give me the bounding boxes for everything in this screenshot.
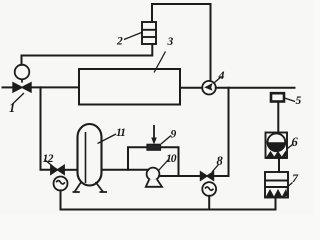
svg-text:1: 1 (9, 101, 15, 115)
leader 8 (212, 165, 219, 173)
wire bottom return line (61, 209, 276, 211)
heater 9 (dark box) with feed arrow (147, 125, 161, 150)
svg-text:10: 10 (166, 153, 177, 165)
wire top header from adsorber 2 to meter 4 (152, 4, 211, 81)
leader 3 (154, 52, 166, 73)
valve 1 with actuator circle (13, 65, 31, 92)
wire gauge 5 to separator 6 (277, 102, 279, 133)
wire bypass loop with orifice 9 (128, 147, 179, 176)
svg-text:8: 8 (217, 154, 224, 168)
filter 7 (layered box with hatch) (265, 172, 288, 198)
svg-text:3: 3 (167, 36, 174, 48)
svg-text:9: 9 (171, 129, 177, 141)
vessel 11 (vertical capsule with dip tube and legs) (73, 124, 108, 192)
leader 5 (285, 98, 296, 102)
svg-text:6: 6 (292, 135, 299, 149)
leader 4 (215, 77, 222, 83)
wire meter 4 to right end (216, 87, 295, 89)
wire separator 6 to filter 7 (278, 158, 280, 172)
wire filter 7 drop to bottom line (275, 198, 277, 210)
wire valve 12 to vessel 11 (64, 169, 77, 171)
svg-text:12: 12 (43, 153, 54, 165)
leader 12 (45, 160, 54, 167)
wire vessel 11 to pump 10 suction (102, 169, 149, 171)
leader lines for labels (12, 33, 295, 189)
svg-text:11: 11 (116, 127, 125, 139)
adsorber 2 (3-section column) (142, 22, 156, 44)
valve 8 with electric actuator (201, 172, 217, 196)
wire drop to valve 12 (41, 87, 51, 169)
leader 1 (12, 93, 24, 105)
separator 6 (box with half-filled ball and hatch) (266, 133, 288, 159)
leader 10 (159, 160, 169, 171)
svg-text:5: 5 (296, 95, 302, 107)
leader 2 (124, 33, 142, 40)
wire valve 1 to reactor 3 (31, 86, 80, 88)
reactor 3 (large rectangle) (79, 69, 180, 105)
valve 12 with electric actuator (51, 165, 68, 190)
svg-text:7: 7 (292, 171, 299, 185)
svg-text:2: 2 (116, 36, 123, 48)
wire adsorber 2 bottom to valve 1 actuator (22, 44, 153, 65)
sensor 5 (small thick box) (271, 93, 284, 101)
leader 6 (288, 145, 293, 149)
flow meter 4 (circle with left arrow mark) (202, 81, 216, 95)
pump 10 (circle on pedestal) (146, 168, 162, 187)
leader 11 (98, 134, 117, 144)
wire valve 8 actuator drop (208, 196, 210, 210)
wire main pipe inlet (3, 86, 14, 88)
svg-text:4: 4 (218, 68, 225, 82)
wire drop to valve 8 (213, 88, 228, 176)
leader 7 (286, 183, 293, 189)
wire reactor 3 to meter 4 (180, 87, 202, 89)
wire valve 12 actuator drop (60, 190, 62, 209)
wire pump 10 outlet to valve 8 (159, 175, 201, 177)
leader 9 (161, 136, 171, 145)
